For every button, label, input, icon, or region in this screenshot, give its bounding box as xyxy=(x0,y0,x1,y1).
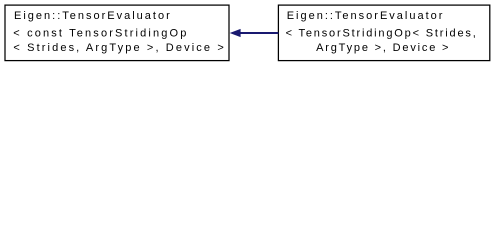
inheritance edge arrowhead xyxy=(230,29,241,37)
svg-text:Eigen::TensorEvaluator: Eigen::TensorEvaluator xyxy=(14,10,172,22)
inheritance edge shaft (right box to left box) xyxy=(240,32,278,34)
svg-text:< Strides, ArgType >, Device >: < Strides, ArgType >, Device > xyxy=(13,42,225,54)
svg-text:< TensorStridingOp< Strides,: < TensorStridingOp< Strides, xyxy=(286,27,478,39)
svg-text:ArgType >, Device >: ArgType >, Device > xyxy=(316,42,450,54)
svg-text:Eigen::TensorEvaluator: Eigen::TensorEvaluator xyxy=(287,10,445,22)
svg-text:< const TensorStridingOp: < const TensorStridingOp xyxy=(13,27,188,39)
node box: Eigen::TensorEvaluator< TensorStridingOp< Strides, ArgType >, Device > (base, right) xyxy=(278,5,489,61)
node box: Eigen::TensorEvaluator< const TensorStridingOp< Strides, ArgType >, Device > (derived, left) xyxy=(5,5,229,61)
